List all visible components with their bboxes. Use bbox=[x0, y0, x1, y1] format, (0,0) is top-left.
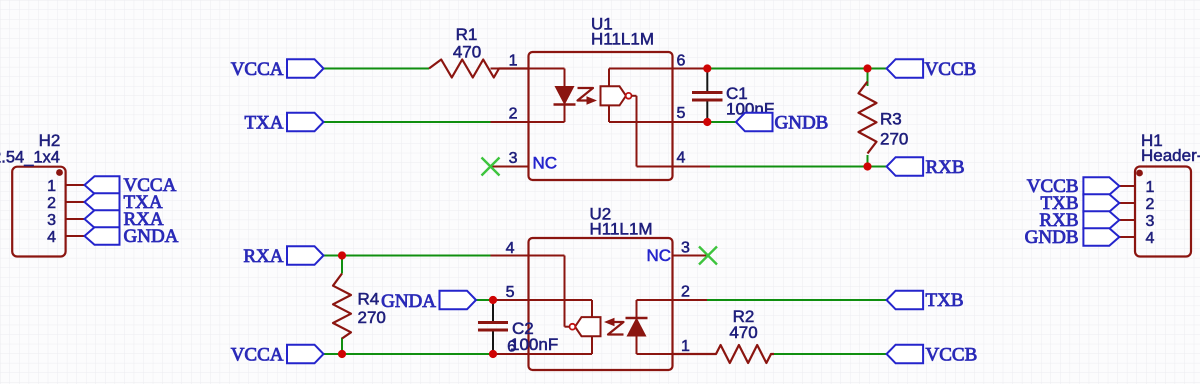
global label VCCB (bottom right) bbox=[887, 345, 924, 364]
global label TXB at H1 pin 2 bbox=[1083, 194, 1119, 212]
svg-text:2: 2 bbox=[509, 106, 518, 123]
junction VCCB/R3 bbox=[863, 64, 871, 72]
svg-text:R3: R3 bbox=[880, 110, 902, 129]
svg-text:3: 3 bbox=[1146, 213, 1155, 230]
wire VCCA to R1 bbox=[324, 68, 430, 70]
wire R3 bottom bbox=[867, 155, 869, 167]
U1 gate output bubble bbox=[626, 93, 632, 99]
svg-text:4: 4 bbox=[47, 229, 56, 246]
svg-text:GNDB: GNDB bbox=[775, 112, 829, 133]
no-connect X on U1 pin 3 bbox=[482, 158, 500, 176]
U2 internal anode rail bbox=[637, 353, 673, 355]
wire GNDA to U2 pin 5 bbox=[476, 299, 492, 301]
svg-text:100nF: 100nF bbox=[510, 335, 558, 354]
wire RXA to U2 pin 4 bbox=[324, 255, 492, 257]
H2 pin-1 marker dot bbox=[56, 169, 63, 176]
global label VCCB at H1 pin 1 bbox=[1083, 177, 1119, 195]
op-amp U2 body bbox=[529, 238, 673, 370]
wire R3 top bbox=[867, 69, 869, 87]
global label TXA at H2 pin 2 bbox=[85, 193, 120, 211]
junction C2/VCCA wire bbox=[489, 350, 497, 358]
svg-text:2.54_1x4: 2.54_1x4 bbox=[0, 148, 60, 166]
global label GNDA bbox=[440, 291, 477, 310]
H1 pin 2 bbox=[1119, 202, 1135, 204]
global label RXA at H2 pin 3 bbox=[85, 210, 120, 228]
svg-text:VCCA: VCCA bbox=[231, 59, 284, 80]
resistor R1 bbox=[429, 60, 529, 78]
svg-text:RXB: RXB bbox=[926, 157, 965, 178]
junction U1 pin6/C1/VCCB bbox=[703, 64, 711, 72]
junction RXA/R4 bbox=[338, 251, 346, 259]
global label TXB bbox=[887, 291, 924, 310]
svg-text:2: 2 bbox=[1146, 196, 1155, 213]
svg-text:NC: NC bbox=[646, 246, 671, 265]
svg-text:1: 1 bbox=[1146, 179, 1155, 196]
no-connect X on U2 pin 3 bbox=[699, 247, 717, 265]
svg-text:VCCA: VCCA bbox=[231, 345, 284, 366]
U2 pin 3 bbox=[673, 255, 710, 257]
U2 LED cathode bar bbox=[626, 317, 648, 319]
svg-text:4: 4 bbox=[506, 240, 515, 257]
svg-text:GNDA: GNDA bbox=[124, 226, 179, 247]
U1 gate supply wiring bbox=[608, 69, 610, 87]
U2 pin 5 bbox=[492, 299, 529, 301]
resistor R3 bbox=[859, 82, 877, 154]
U2 pin 4 bbox=[491, 255, 529, 257]
global label GNDB at H1 pin 4 bbox=[1083, 228, 1119, 246]
H1 pin 4 bbox=[1119, 236, 1135, 238]
U1 light arrow bbox=[578, 88, 594, 101]
svg-text:GNDB: GNDB bbox=[1025, 227, 1079, 248]
svg-text:3: 3 bbox=[47, 212, 56, 229]
svg-text:3: 3 bbox=[509, 150, 518, 167]
U2 LED triangle bbox=[627, 319, 645, 337]
global label TXA bbox=[287, 113, 324, 132]
U1 LED cathode bar bbox=[554, 103, 576, 105]
wire VCCA to U2 pin 6 bbox=[324, 353, 494, 355]
U2 gate output wiring bbox=[565, 326, 570, 328]
global label VCCA (bottom left) bbox=[287, 345, 324, 364]
U1 pin 3 bbox=[491, 166, 529, 168]
svg-text:270: 270 bbox=[880, 130, 908, 149]
svg-text:2: 2 bbox=[681, 284, 690, 301]
global label VCCB (top right) bbox=[887, 59, 924, 78]
H2 pin 4 bbox=[66, 235, 85, 237]
capacitor C2 bbox=[492, 300, 494, 323]
junction R3/RXB bbox=[863, 162, 871, 170]
svg-text:1: 1 bbox=[509, 53, 518, 70]
svg-text:H2: H2 bbox=[39, 131, 61, 150]
wire U1 pin 6 to VCCB bbox=[707, 68, 886, 70]
global label GNDB bbox=[736, 113, 773, 132]
svg-text:4: 4 bbox=[1146, 230, 1155, 247]
connector H2 body bbox=[12, 167, 65, 257]
svg-text:GNDA: GNDA bbox=[381, 291, 436, 312]
U2 schmitt gate bbox=[575, 317, 601, 336]
svg-text:H11L1M: H11L1M bbox=[590, 220, 653, 239]
H1 pin 3 bbox=[1119, 219, 1135, 221]
svg-text:VCCB: VCCB bbox=[926, 345, 978, 366]
H1 pin 1 bbox=[1119, 185, 1135, 187]
svg-text:4: 4 bbox=[677, 150, 686, 167]
svg-text:VCCB: VCCB bbox=[925, 59, 977, 80]
U1 schmitt gate bbox=[601, 86, 627, 105]
svg-text:470: 470 bbox=[453, 43, 481, 62]
wire R2 to VCCB bbox=[774, 353, 887, 355]
U2 pin 2 bbox=[673, 299, 708, 301]
U1 pin 6 bbox=[673, 68, 708, 70]
wire TXA to U1 pin 2 bbox=[324, 121, 492, 123]
svg-text:R1: R1 bbox=[456, 25, 478, 44]
svg-text:5: 5 bbox=[677, 105, 686, 122]
wire U1 pin 5 to GNDB bbox=[707, 121, 736, 123]
svg-text:5: 5 bbox=[506, 284, 515, 301]
op-amp U1 body bbox=[529, 52, 673, 180]
junction R4/VCCA bbox=[338, 350, 346, 358]
svg-text:Header-1x4: Header-1x4 bbox=[1141, 146, 1200, 165]
U1 internal anode rail bbox=[529, 68, 565, 70]
global label RXA bbox=[287, 246, 324, 265]
H1 pin-1 marker dot bbox=[1136, 170, 1143, 177]
H2 pin 2 bbox=[66, 201, 85, 203]
U1 LED triangle bbox=[555, 87, 573, 105]
U1 pin 4 bbox=[673, 166, 711, 168]
global label GNDA at H2 pin 4 bbox=[85, 227, 120, 245]
resistor R2 bbox=[673, 345, 775, 363]
U2 gate supply wiring bbox=[591, 336, 593, 354]
svg-text:470: 470 bbox=[729, 323, 757, 342]
global label RXB at H1 pin 3 bbox=[1083, 211, 1119, 229]
U1 gate output wiring bbox=[631, 95, 636, 97]
wire U1 pin 4 to RXB bbox=[710, 166, 887, 168]
global label VCCA (top left) bbox=[287, 59, 324, 78]
global label RXB bbox=[887, 157, 924, 176]
U2 pin 6 bbox=[493, 353, 529, 355]
svg-text:RXA: RXA bbox=[243, 246, 283, 267]
capacitor C1 bbox=[706, 69, 708, 93]
U2 pin 1 bbox=[673, 353, 715, 355]
svg-text:2: 2 bbox=[47, 195, 56, 212]
global label VCCA at H2 pin 1 bbox=[85, 176, 120, 194]
wire U2 pin 2 to TXB bbox=[707, 299, 887, 301]
svg-text:NC: NC bbox=[533, 154, 558, 173]
wire R4 top bbox=[341, 256, 343, 274]
svg-text:1: 1 bbox=[47, 178, 56, 195]
junction GNDA/C2/U2 pin5 bbox=[489, 296, 497, 304]
svg-text:R4: R4 bbox=[358, 290, 380, 309]
U2 light arrow bbox=[608, 322, 624, 335]
svg-text:6: 6 bbox=[677, 53, 686, 70]
U2 gate output bubble bbox=[570, 324, 576, 330]
connector H1 body bbox=[1135, 167, 1191, 257]
resistor R4 bbox=[333, 274, 351, 339]
U1 pin 1 bbox=[491, 68, 529, 70]
svg-text:TXB: TXB bbox=[926, 290, 964, 311]
H2 pin 3 bbox=[66, 218, 85, 220]
H2 pin 1 bbox=[66, 184, 85, 186]
wire R4 bottom bbox=[341, 338, 343, 355]
svg-text:1: 1 bbox=[681, 338, 690, 355]
U1 pin 5 bbox=[673, 121, 708, 123]
junction C1/U1 pin5/GNDB bbox=[703, 118, 711, 126]
svg-text:3: 3 bbox=[681, 240, 690, 257]
U1 pin 2 bbox=[491, 121, 529, 123]
svg-text:H11L1M: H11L1M bbox=[591, 30, 654, 49]
svg-text:TXA: TXA bbox=[244, 113, 283, 134]
